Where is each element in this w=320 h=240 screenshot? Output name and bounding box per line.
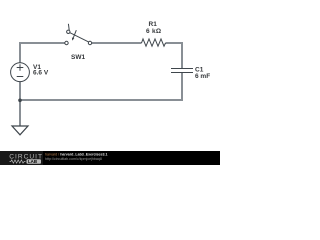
- svg-text:6.6 V: 6.6 V: [33, 70, 49, 77]
- footer logo background: [0, 151, 43, 165]
- svg-text:LAB: LAB: [28, 159, 37, 164]
- SW1 pivot circle: [67, 30, 70, 33]
- SW1 lever: [70, 33, 89, 42]
- wire capacitor to bottom-right corner and bottom rail: [22, 73, 183, 100]
- svg-text:SW1: SW1: [71, 54, 85, 61]
- svg-text:http://circuitlab.com/c/kpmjce: http://circuitlab.com/c/kpmjcejhbaq8: [45, 157, 102, 161]
- SW1 actuation arrow: [73, 30, 76, 38]
- SW1 stub above pivot: [67, 24, 70, 30]
- ground: [12, 126, 28, 135]
- svg-text:6 kΩ: 6 kΩ: [146, 28, 161, 35]
- V1 plus sign: [17, 67, 24, 69]
- switch SW1: [65, 24, 92, 45]
- logo resistor zigzag: [10, 160, 26, 163]
- V1 minus sign: [17, 76, 24, 78]
- voltage source V1: [11, 63, 30, 82]
- wire V1 top to top-left corner to switch: [20, 43, 65, 63]
- capacitor C1: [171, 69, 193, 73]
- footer bar: [0, 151, 220, 165]
- resistor R1: [142, 39, 166, 46]
- wire switch to resistor: [92, 42, 142, 44]
- SW1 right terminal circle: [88, 41, 91, 44]
- wire V1 bottom to ground: [19, 82, 21, 126]
- svg-text:6 mF: 6 mF: [195, 73, 210, 80]
- junction node dot: [18, 99, 22, 103]
- SW1 left terminal circle: [65, 41, 68, 44]
- logo LAB box: [27, 159, 42, 164]
- wire resistor to top-right corner down to capacitor: [166, 43, 183, 68]
